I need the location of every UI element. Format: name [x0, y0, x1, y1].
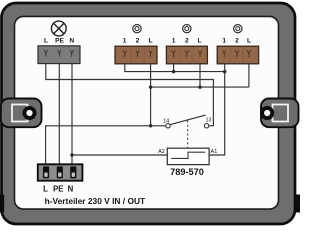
svg-text:13: 13 [206, 118, 212, 124]
svg-text:L: L [247, 38, 251, 45]
svg-text:L: L [148, 38, 152, 45]
junction terminal-1 bus / X2-1 drop [172, 70, 176, 74]
wire lamp L to switch contact 13 [46, 64, 214, 126]
junction terminal-1 bus / X3-1 / A1 riser [223, 70, 227, 74]
connector X2 (brown) [166, 46, 207, 64]
switch arm [170, 115, 206, 125]
label 1 2 L (connector X3) [222, 38, 251, 45]
lamp symbol [51, 21, 66, 36]
connector X3 (brown) [217, 46, 258, 64]
wire connector X3 L drop [248, 64, 250, 87]
label 1 2 L (connector X1) [123, 38, 153, 45]
left mounting tab [1, 99, 42, 128]
bottom-right hinge stub [296, 195, 300, 213]
svg-text:14: 14 [163, 119, 169, 125]
supply connector (black) [38, 164, 83, 180]
wire L bus [151, 86, 249, 88]
switch contact 14 [166, 124, 170, 128]
label L PE N (supply) [43, 184, 74, 193]
wire supply L to switch contact 14 [46, 126, 166, 165]
junction L bus / X2-L drop [198, 85, 202, 89]
svg-text:h-Verteiler 230 V IN / OUT: h-Verteiler 230 V IN / OUT [45, 196, 146, 206]
clamp terminals L PE N [44, 50, 73, 57]
wire connector X1 L drop [150, 64, 152, 126]
label L PE N (lamp connector) [44, 38, 74, 45]
junction L bus / X1-L drop [149, 85, 153, 89]
wire coil A2 to N [72, 154, 167, 156]
right mounting tab [260, 99, 298, 128]
lamp connector X4 (grey) [38, 46, 80, 64]
clamp terminals 1 2 L (X3) [222, 50, 250, 57]
wire connector X2 L drop [199, 64, 201, 87]
junction N / coil A2 wire [70, 153, 74, 157]
mechanical link (dashed) [187, 120, 189, 148]
svg-text:1: 1 [123, 38, 127, 45]
bottom-left hinge stub [0, 195, 4, 213]
svg-text:L: L [44, 38, 48, 45]
svg-text:N: N [68, 184, 74, 193]
screw head over connector X2 [183, 24, 191, 32]
relay coil box 789-570 [167, 148, 209, 164]
svg-text:A1: A1 [211, 149, 218, 155]
wire terminal-1 bus [125, 64, 225, 72]
svg-text:N: N [69, 38, 74, 45]
svg-text:789-570: 789-570 [170, 167, 204, 177]
connector X1 (brown) [115, 46, 157, 64]
svg-text:L: L [197, 38, 201, 45]
clamp terminals 1 2 L (X2) [172, 50, 202, 57]
wire PE vertical (lamp PE to supply PE) [58, 64, 60, 165]
svg-text:PE: PE [55, 38, 64, 45]
label 1 2 L (connector X2) [172, 38, 202, 45]
screw head over connector X1 [133, 24, 141, 32]
screw head over connector X3 [234, 24, 242, 32]
wire N vertical (lamp N to supply N) [71, 64, 73, 165]
svg-text:A2: A2 [158, 149, 165, 155]
svg-text:1: 1 [172, 38, 176, 45]
switch contact 13 [204, 124, 208, 128]
svg-text:2: 2 [185, 38, 189, 45]
junction switch feed / X1-L drop [149, 124, 153, 128]
svg-text:2: 2 [136, 38, 140, 45]
wire connector X2 terminal-1 drop [173, 64, 175, 72]
svg-text:L: L [43, 184, 48, 193]
svg-text:PE: PE [53, 184, 63, 193]
svg-text:1: 1 [222, 38, 226, 45]
inner white panel [15, 16, 279, 209]
clamp terminals 1 2 L (X1) [123, 50, 152, 57]
svg-text:2: 2 [235, 38, 239, 45]
relay step symbol [171, 152, 205, 158]
wire connector X3 terminal-1 to coil A1 [209, 64, 225, 155]
